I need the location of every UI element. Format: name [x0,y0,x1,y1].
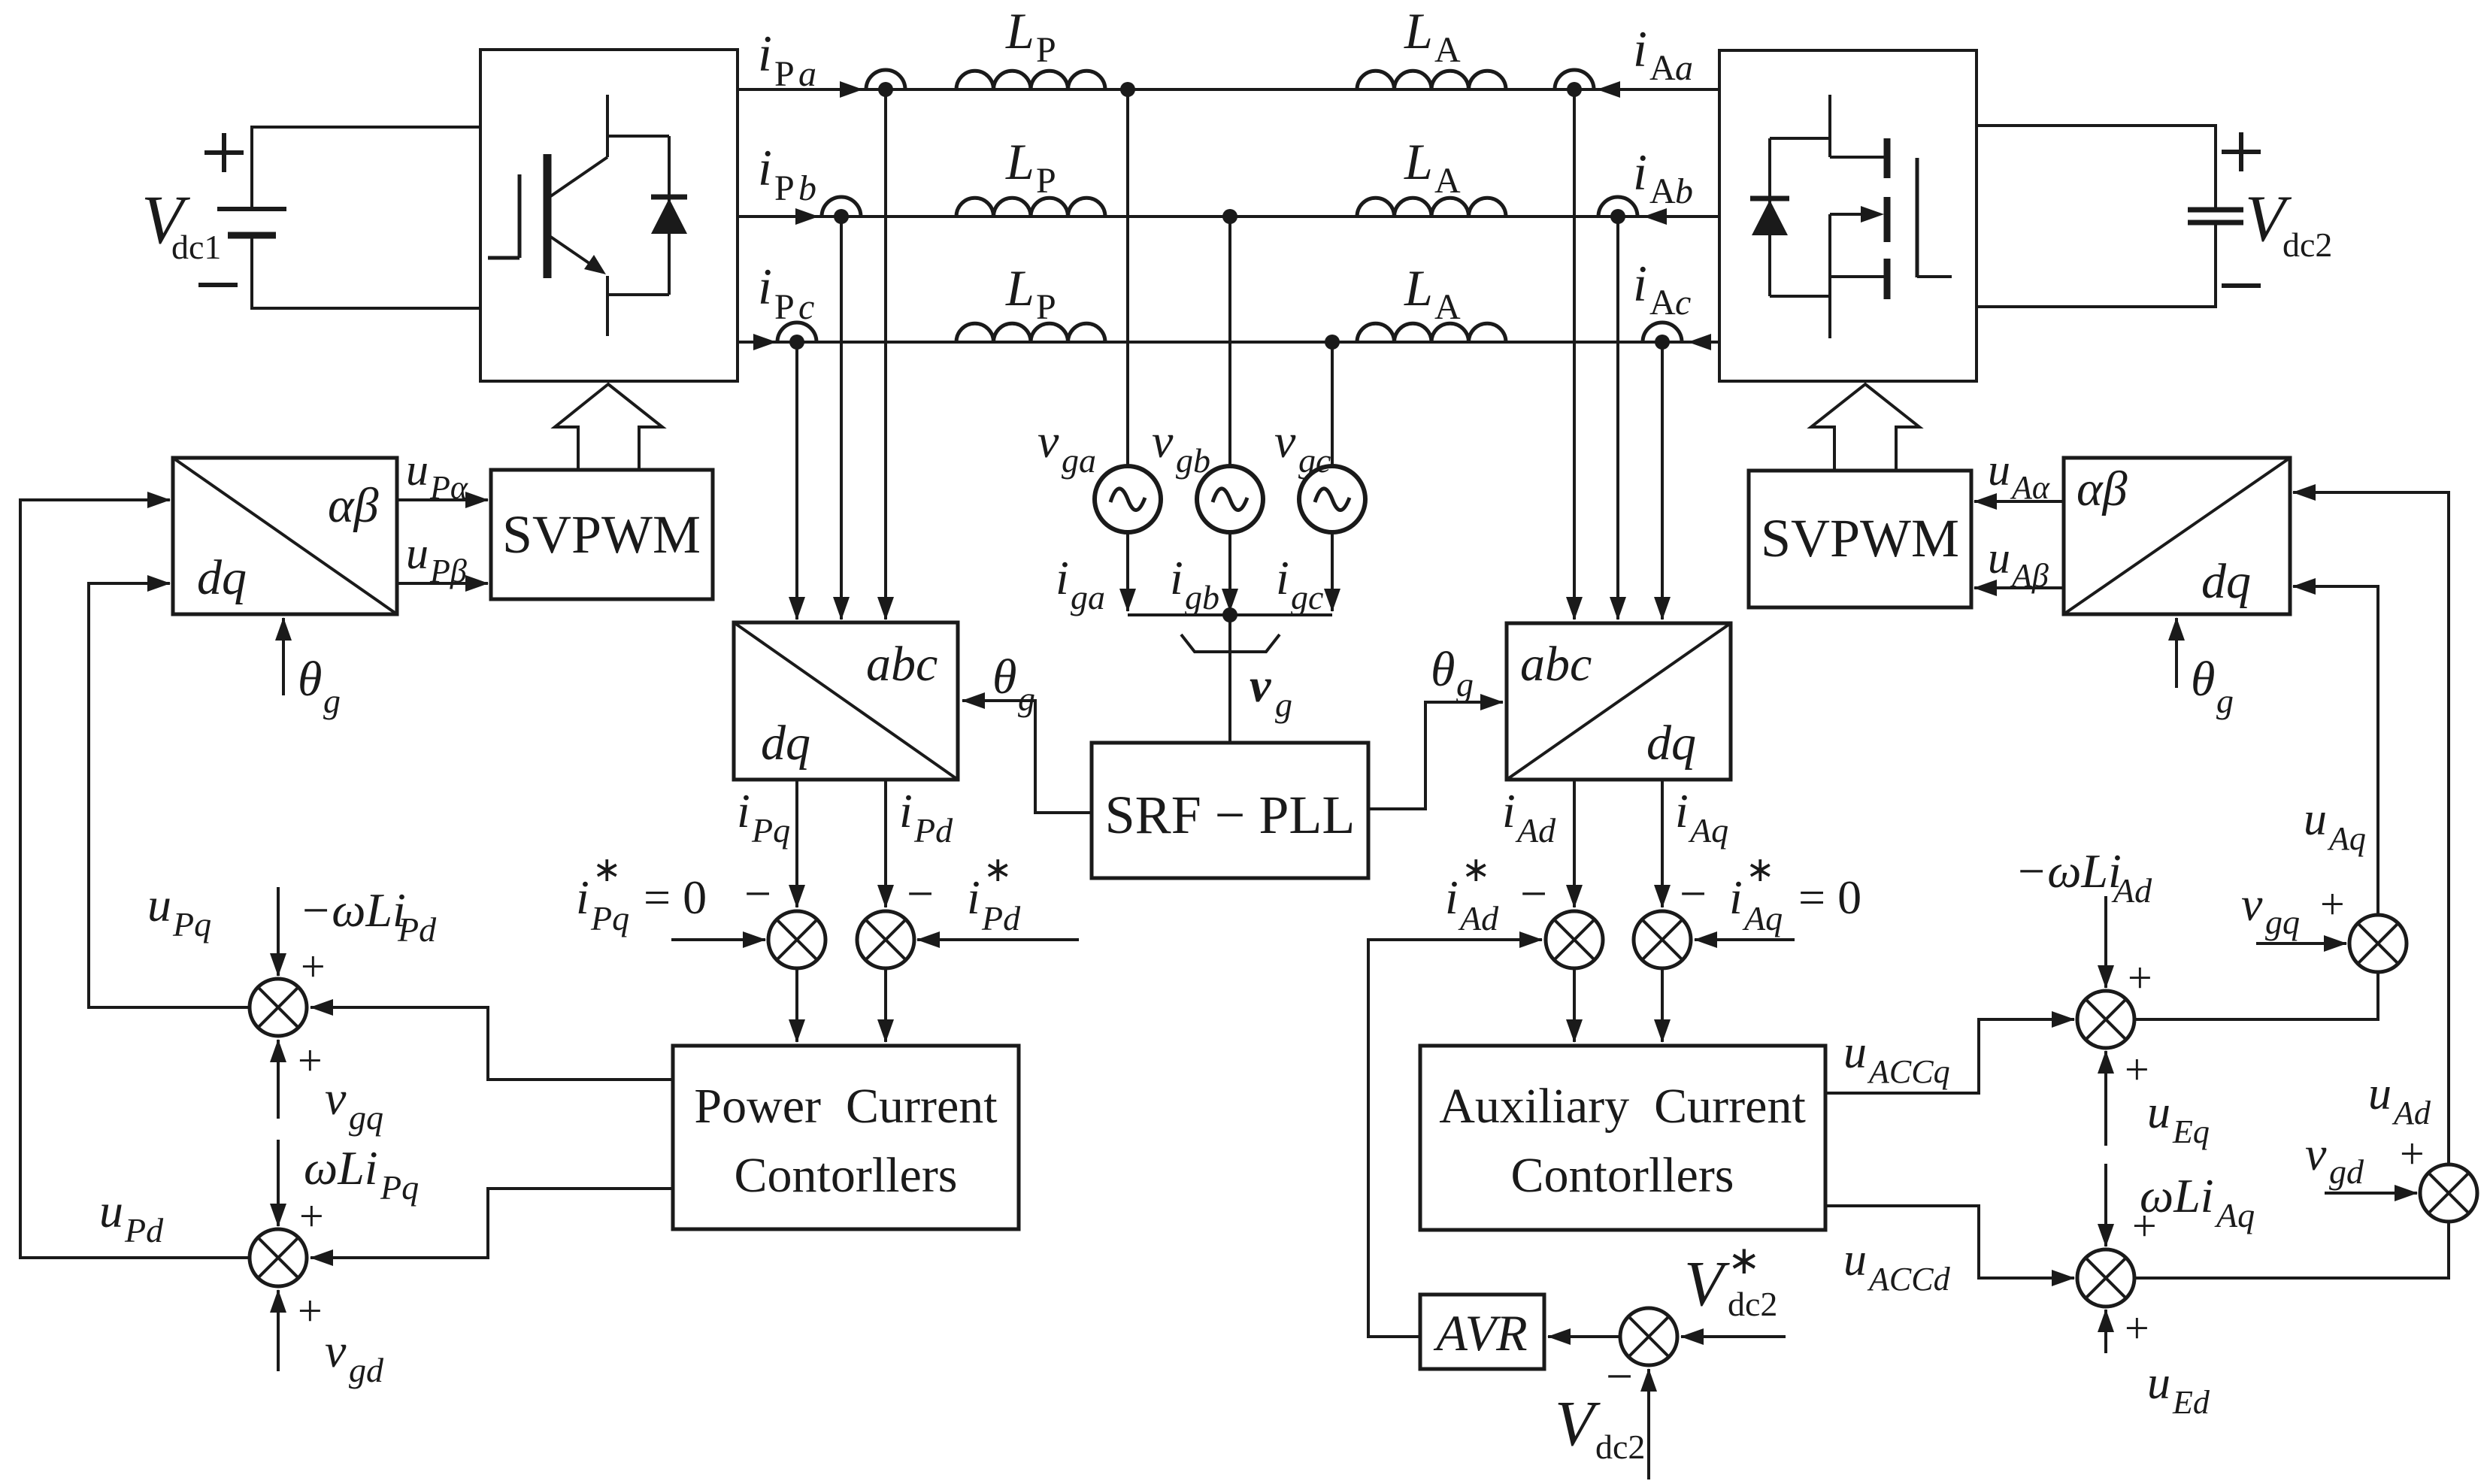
arrow iPc [753,334,777,350]
wire -wLiPd into uPq summer [277,887,280,976]
wire iPd summer to controller [884,968,887,1042]
svg-text:αβ: αβ [328,478,379,533]
wire vg to PLL [1228,615,1231,743]
inductor LA phase a [1357,71,1506,89]
svg-text:Pd: Pd [913,811,953,850]
svg-text:A: A [1649,48,1676,88]
svg-text:c: c [1675,283,1691,323]
svg-text:gq: gq [2265,903,2300,941]
svg-text:dq: dq [2201,554,2251,609]
svg-text:+: + [2128,953,2152,1002]
svg-text:L: L [1005,133,1034,190]
inductor LA phase c [1357,323,1506,342]
wire igc [1331,532,1334,611]
wire neutral bus [1128,613,1332,616]
svg-text:P: P [1036,287,1056,327]
svg-text:v: v [1274,414,1296,468]
svg-text:P: P [1036,30,1056,70]
diode D2 cathode bar [1750,196,1789,201]
svg-text:u: u [1988,445,2010,495]
wire -wLiAd input [2104,896,2107,988]
wire controller to uPq summer [310,1007,673,1080]
wire iAd out [1573,780,1576,907]
wire Vdc2* input [1681,1335,1786,1338]
block abc/dq right [1507,623,1731,780]
wire iAa sense [1573,89,1576,619]
svg-text:−: − [1520,867,1547,920]
svg-text:Eq: Eq [2172,1113,2210,1150]
block abc/dq left [734,622,958,780]
svg-text:Contorllers: Contorllers [1511,1148,1734,1203]
svg-text:i: i [1502,784,1516,837]
svg-text:ACCq: ACCq [1867,1053,1950,1090]
svg-text:Ed: Ed [2172,1384,2210,1421]
svg-text:i: i [758,258,772,315]
svg-text:SRF − PLL: SRF − PLL [1105,785,1356,845]
wire uPb out [397,582,488,585]
svg-text:u: u [406,528,429,578]
svg-text:∗: ∗ [1728,1240,1761,1283]
svg-text:+: + [299,1192,324,1240]
svg-text:u: u [2147,1087,2170,1138]
svg-text:gb: gb [1176,441,1210,480]
gating block arrow left [555,384,662,470]
summer uAq channel [2077,991,2134,1048]
svg-text:c: c [798,287,814,327]
arrow iAa [1597,81,1620,98]
transistor Q1 emitter arrowhead [584,255,606,274]
svg-text:dc1: dc1 [171,228,221,266]
wire theta-g to left abc/dq [962,701,1092,813]
svg-text:Pd: Pd [981,899,1021,937]
svg-text:∗: ∗ [592,850,622,889]
svg-text:∗: ∗ [983,850,1013,889]
svg-text:Aβ: Aβ [2010,557,2049,594]
svg-text:b: b [1675,171,1693,211]
wire wLiAq input [2104,1164,2107,1246]
svg-text:−: − [744,867,771,920]
svg-text:i: i [576,871,589,924]
svg-text:Pα: Pα [429,469,468,506]
label - of Vdc1 [198,283,238,287]
svg-text:Aq: Aq [2214,1196,2255,1234]
svg-text:+: + [2320,880,2345,928]
wire wLiPq into uPd summer [277,1140,280,1226]
summer iPq [768,911,825,968]
svg-text:dc2: dc2 [1728,1285,1777,1323]
svg-text:P: P [1036,161,1056,201]
transistor Q1 IGBT gate [488,174,520,258]
svg-text:L: L [1404,259,1433,316]
wire uPa out [397,498,488,501]
svg-text:v: v [1037,414,1059,468]
svg-text:L: L [1005,259,1034,316]
svg-text:A: A [1434,287,1461,327]
svg-text:Auxiliary Current: Auxiliary Current [1439,1079,1806,1134]
svg-text:ga: ga [1062,441,1096,480]
svg-text:i: i [1633,20,1647,77]
svg-text:g: g [1275,686,1292,724]
wire uACCd [1825,1206,2074,1278]
wire iAb sense [1616,217,1619,619]
block Power Current Contorllers [673,1046,1019,1229]
svg-text:g: g [323,682,341,720]
svg-text:= 0: = 0 [1798,871,1861,924]
transistor Q2 MOSFET gate bar [1916,158,1919,277]
svg-text:gd: gd [349,1351,384,1389]
block ab/dq left [173,458,397,614]
wire iPq summer to controller [795,968,798,1042]
wire iAq* input [1695,938,1795,941]
svg-text:Ad: Ad [1515,811,1556,850]
svg-text:dq: dq [761,716,810,771]
transistor Q2 body arrowhead [1861,206,1884,223]
wire vgq into uPq summer [277,1040,280,1119]
svg-text:u: u [1843,1234,1867,1286]
svg-text:P: P [774,54,795,94]
svg-text:−: − [1606,1349,1633,1403]
svg-text:Pq: Pq [590,899,629,937]
svg-text:SVPWM: SVPWM [502,504,701,565]
svg-text:a: a [798,54,816,94]
svg-text:Aα: Aα [2010,469,2050,506]
wire phase b line [738,215,1719,218]
wire uPd summer to ab input [20,500,250,1258]
svg-text:v: v [1250,659,1271,712]
wire theta-g into ab/dq right [2175,618,2178,688]
wire grid tap b down [1228,217,1231,466]
node neutral junction [1222,607,1237,622]
svg-text:g: g [2216,682,2234,720]
label + of Vdc1 [204,133,244,172]
block ab/dq right [2064,458,2290,614]
svg-text:i: i [967,871,980,924]
svg-text:gq: gq [349,1098,383,1137]
svg-text:∗: ∗ [1462,850,1491,889]
svg-text:L: L [1005,2,1034,59]
svg-text:i: i [1276,551,1289,604]
gating block arrow right [1811,384,1919,471]
transistor Q2 MOSFET gate lead [1917,275,1952,278]
svg-text:Pd: Pd [397,910,437,949]
svg-text:abc: abc [1520,637,1592,692]
block SRF-PLL [1092,743,1368,878]
svg-text:+: + [2400,1129,2425,1178]
arrow iAc [1688,334,1711,350]
svg-text:+: + [2125,1304,2149,1352]
svg-text:Pq: Pq [380,1168,419,1207]
svg-text:i: i [1675,784,1689,837]
svg-text:u: u [1988,533,2010,583]
svg-text:abc: abc [866,637,938,692]
svg-text:Pq: Pq [172,905,211,943]
summer uPq [250,979,307,1036]
inductor LP phase a [956,71,1105,89]
svg-text:Pq: Pq [751,811,790,850]
wire iAd summer to controller [1573,968,1576,1042]
svg-text:V: V [1684,1247,1730,1319]
svg-text:v: v [2241,877,2263,931]
wire controller to uPd summer [310,1189,673,1258]
sensor phase a right [1555,70,1594,89]
svg-text:u: u [1843,1027,1867,1078]
wire iPq* input [671,938,765,941]
svg-text:A: A [1434,161,1461,201]
svg-text:v: v [1152,414,1174,468]
wire Vdc2 top lead [1977,126,2216,210]
diode D2 leads [1770,138,1830,296]
svg-text:A: A [1434,30,1461,70]
svg-text:i: i [1445,871,1459,924]
wire iPc sense [795,342,798,619]
wire iAq out [1661,780,1664,907]
inductor LP phase c [956,323,1105,342]
wire iga [1126,532,1129,611]
wire Vdc2 measured input [1647,1369,1650,1479]
wire theta-g into ab/dq left [282,618,285,695]
svg-text:Aq: Aq [1688,811,1728,850]
summer iAd [1546,911,1603,968]
svg-text:Power Current: Power Current [694,1079,997,1134]
svg-text:A: A [1649,171,1676,211]
svg-text:P: P [774,168,795,208]
svg-text:i: i [1633,144,1647,201]
svg-text:+: + [2125,1045,2149,1094]
svg-text:u: u [2368,1068,2392,1119]
sensor phase b left [822,197,861,217]
svg-text:Ad: Ad [1458,899,1499,937]
wire vgd into uPd summer [277,1290,280,1371]
sensor phase c right [1643,323,1682,342]
svg-text:Aq: Aq [1742,899,1783,937]
wire uAb out [1974,586,2064,589]
svg-text:θ: θ [992,650,1016,704]
capacitor Vdc2 plates [2188,207,2243,213]
wire iAc sense [1661,342,1664,619]
wire iPb sense [840,217,843,619]
block AVR [1420,1295,1544,1369]
wire phase c line [738,341,1719,344]
transistor Q2 MOSFET source [1830,214,1886,338]
svg-text:i: i [1729,871,1743,924]
inductor LP phase b [956,198,1105,217]
svg-text:u: u [406,445,429,495]
wire uAd chain to ab input [2134,492,2449,1278]
svg-text:dc2: dc2 [1595,1428,1645,1466]
svg-text:Ad: Ad [2392,1095,2431,1131]
wire iPd out [884,780,887,907]
svg-text:a: a [1675,48,1693,88]
svg-text:ACCd: ACCd [1867,1261,1951,1298]
svg-text:gc: gc [1291,578,1323,616]
svg-text:g: g [1456,665,1474,704]
wire uEq input [2104,1051,2107,1146]
svg-text:+: + [2132,1201,2157,1250]
converter U1 box (left VSC) [480,50,738,381]
summer vgd [2420,1164,2477,1222]
node phase b grid tap [1222,209,1237,224]
svg-text:θ: θ [2191,652,2215,707]
svg-text:−ωLi: −ωLi [2015,844,2122,898]
svg-text:Pd: Pd [124,1211,164,1249]
svg-text:gc: gc [1298,441,1331,480]
svg-text:i: i [899,784,913,837]
wire igb [1228,532,1231,611]
transistor Q2 MOSFET channel bars [1884,138,1891,299]
transistor Q1 emitter [550,236,607,336]
svg-text:+: + [298,1036,323,1085]
svg-text:θ: θ [1431,642,1455,697]
source vgb [1197,466,1263,532]
summer iPd [857,911,914,968]
summer Vdc2 [1620,1308,1677,1365]
svg-text:αβ: αβ [2077,462,2128,516]
svg-text:gb: gb [1185,578,1219,616]
dc source Vdc1 battery plates [217,207,286,211]
svg-text:u: u [2147,1358,2170,1409]
svg-text:∗: ∗ [1746,850,1775,889]
summer uAd channel [2077,1249,2134,1307]
wire vgd input [2325,1192,2417,1195]
svg-text:g: g [1018,680,1035,718]
wire uAq chain to dq input [2134,586,2378,1019]
svg-text:Pβ: Pβ [429,553,467,589]
sensor phase a left [866,70,905,89]
transistor Q2 MOSFET body arrow line [1830,213,1877,216]
block SVPWM left [491,470,713,599]
summer vgq [2349,915,2407,972]
wire Vdc1 top lead [252,127,480,209]
label + of Vdc2 [2222,132,2261,171]
svg-text:u: u [99,1184,123,1237]
svg-text:b: b [798,168,816,208]
sensor phase b right [1598,197,1637,217]
svg-text:+: + [301,942,326,991]
label - of Vdc2 [2222,283,2261,288]
wire vgq input [2256,942,2346,945]
inductor LA phase b [1357,198,1506,217]
svg-text:v: v [2305,1127,2327,1180]
svg-text:i: i [1170,551,1183,604]
svg-text:θ: θ [298,652,322,707]
svg-text:Aq: Aq [2327,820,2366,857]
wire iPa sense [884,89,887,619]
node phase c grid tap [1325,335,1340,350]
diode D2 triangle [1752,200,1788,235]
svg-text:i: i [1633,255,1647,312]
svg-text:i: i [1056,551,1069,604]
wire uACCq [1825,1019,2074,1093]
svg-text:u: u [2304,794,2327,845]
transistor Q2 MOSFET drain [1830,95,1886,157]
block Auxiliary Current Contorllers [1420,1046,1825,1230]
svg-text:ga: ga [1071,578,1105,616]
node phase a grid tap [1120,82,1135,97]
wire summer to AVR [1548,1335,1620,1338]
svg-text:v: v [325,1324,347,1377]
wire Vdc2 bottom lead [1977,223,2216,307]
arrow iPa [840,81,863,98]
svg-text:ωLi: ωLi [304,1141,378,1195]
svg-text:= 0: = 0 [644,871,707,924]
diode D1 triangle [651,198,687,234]
svg-text:+: + [298,1286,323,1335]
vg measurement bracket [1181,634,1280,652]
svg-text:gd: gd [2329,1152,2364,1191]
diode D1 cathode bar [651,195,687,200]
wire grid tap c down [1331,342,1334,466]
svg-text:i: i [758,139,772,196]
source vga [1095,466,1161,532]
wire AVR to iAd* reference [1368,940,1542,1337]
diode D1 anti-parallel links [607,136,669,295]
converter U2 box (right VSC) [1719,50,1977,381]
wire uPq summer to dq input [89,583,250,1007]
wire theta-g to right abc/dq [1368,702,1503,809]
svg-text:P: P [774,287,795,327]
arrow iAb [1643,208,1667,225]
wire uAa out [1974,500,2064,503]
svg-text:−: − [1680,867,1707,920]
wire grid tap a down [1126,89,1129,466]
svg-text:−ωLi: −ωLi [299,883,406,937]
svg-text:v: v [325,1071,347,1125]
svg-text:Contorllers: Contorllers [735,1148,958,1203]
summer iAq [1634,911,1691,968]
svg-text:dc2: dc2 [2282,226,2332,264]
wire iPq out [795,780,798,907]
svg-text:L: L [1404,2,1433,59]
svg-text:i: i [737,784,750,837]
svg-text:u: u [147,878,171,931]
svg-text:dq: dq [197,550,247,605]
svg-text:L: L [1404,133,1433,190]
sensor phase c left [777,323,816,342]
svg-text:V: V [1555,1387,1601,1459]
wire phase a line [738,88,1719,91]
transistor Q1 collector [550,95,607,197]
svg-text:−: − [907,867,934,920]
svg-text:A: A [1649,283,1676,323]
summer uPd [250,1229,307,1286]
svg-text:Ad: Ad [2111,871,2152,910]
wire Vdc1 bottom lead [252,235,480,308]
transistor Q1 IGBT body bar [544,154,552,278]
wire uEd input [2104,1310,2107,1353]
arrow iPb [795,208,819,225]
wire iAq summer to controller [1661,968,1664,1042]
svg-text:dq: dq [1646,716,1696,771]
svg-text:SVPWM: SVPWM [1761,508,1959,568]
wire iPd* input [917,938,1079,941]
svg-text:AVR: AVR [1433,1304,1527,1361]
block SVPWM right [1749,471,1971,607]
source vgc [1299,466,1365,532]
svg-text:i: i [758,25,772,82]
